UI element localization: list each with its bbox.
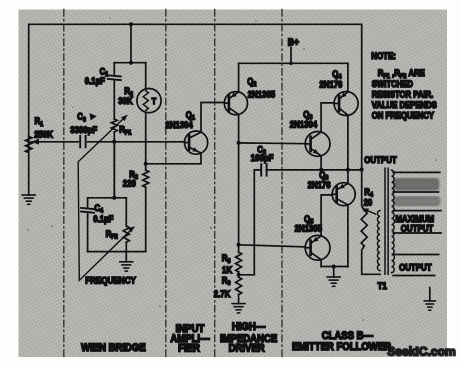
wire box1 right leg bbox=[145, 63, 147, 252]
svg-text:NOTE:: NOTE: bbox=[371, 50, 396, 61]
transformer T1 core bbox=[384, 168, 386, 274]
secondary tap 4 bbox=[393, 232, 441, 234]
wire Q3 collector bbox=[321, 103, 334, 132]
wire Q2 emitter to B+ bbox=[238, 63, 240, 92]
wire emitter bus bbox=[321, 266, 348, 268]
junction Q3 emitter bbox=[319, 168, 323, 172]
svg-text:WIEN BRIDGE: WIEN BRIDGE bbox=[81, 342, 146, 354]
B+ terminal bbox=[290, 48, 292, 64]
wire feedback to R4 bbox=[362, 170, 365, 211]
svg-text:ON FREQUENCY: ON FREQUENCY bbox=[372, 110, 434, 121]
svg-text:SWITCHED: SWITCHED bbox=[372, 78, 413, 89]
wire ground stub box2 bbox=[125, 252, 127, 262]
wire ground stub emitters bbox=[333, 267, 335, 278]
wire feedback top rail bbox=[29, 24, 362, 195]
transistor Q1 2N1304 bbox=[185, 131, 208, 154]
svg-text:2N176: 2N176 bbox=[319, 79, 342, 90]
svg-text:2N1305: 2N1305 bbox=[248, 89, 276, 100]
wire Q6 emitter down bbox=[347, 205, 349, 267]
junction Q5 base node bbox=[237, 243, 241, 247]
svg-text:2N176: 2N176 bbox=[308, 179, 331, 190]
secondary tap 5 bbox=[393, 254, 438, 256]
capacitor C3 3300pF bbox=[79, 136, 81, 148]
junction Q3 base node bbox=[237, 141, 241, 145]
svg-text:2.7K: 2.7K bbox=[214, 288, 231, 299]
wire B+ rail bbox=[239, 62, 348, 64]
svg-text:FIER: FIER bbox=[178, 343, 200, 355]
wire Q1 emitter bbox=[146, 153, 201, 164]
capacitor C1 0.1uF bbox=[108, 75, 121, 76]
wire Q3 emitter bbox=[320, 156, 322, 170]
wire ground stub R6 bbox=[238, 295, 240, 304]
secondary tap 6 bbox=[393, 275, 435, 277]
svg-text:30K: 30K bbox=[118, 95, 133, 106]
svg-text:0.1µF: 0.1µF bbox=[93, 213, 113, 224]
wire R4 bottom to primary bbox=[362, 246, 380, 274]
secondary tap 2 bbox=[393, 191, 438, 193]
wire Q4 emitter down bbox=[347, 115, 349, 169]
svg-text:OUTPUT: OUTPUT bbox=[401, 223, 434, 234]
svg-text:T: T bbox=[152, 97, 157, 107]
resistor R1 250K bbox=[26, 137, 32, 153]
svg-text:250K: 250K bbox=[34, 129, 53, 140]
resistor R4 20 bbox=[361, 210, 367, 246]
transistor Q4 2N176 bbox=[334, 92, 358, 116]
svg-text:OUTPUT: OUTPUT bbox=[399, 262, 432, 273]
transformer T1 secondary bbox=[392, 170, 395, 272]
svg-text:RESISTOR PAIR.: RESISTOR PAIR. bbox=[372, 89, 433, 100]
wire output rail bbox=[267, 169, 362, 171]
wire Q5 emitter down bbox=[320, 260, 322, 267]
wire Q4 collector to B+ bbox=[347, 63, 349, 91]
svg-text:T1: T1 bbox=[378, 280, 387, 291]
junction Q4 emitter bbox=[346, 168, 350, 172]
svg-text:220: 220 bbox=[123, 178, 136, 189]
svg-text:2N1304: 2N1304 bbox=[290, 119, 318, 130]
wire C2 left drop bbox=[239, 170, 262, 275]
svg-text:2N1305: 2N1305 bbox=[295, 223, 323, 234]
wire Q2 collector down bbox=[238, 115, 240, 253]
wire R5-R6 junction bbox=[238, 272, 240, 277]
transistor Q5 2N1305 bbox=[305, 235, 330, 260]
wire Q1 collector bbox=[201, 103, 224, 132]
wire box1 top bbox=[114, 62, 145, 64]
secondary tap 1 bbox=[393, 171, 440, 173]
junction feedback T bbox=[360, 168, 364, 172]
svg-text:VALUE DEPENDS: VALUE DEPENDS bbox=[372, 99, 437, 110]
section divider line 4 bbox=[281, 10, 283, 357]
ground below RF2 bbox=[120, 262, 133, 271]
transistor Q6 2N176 bbox=[332, 183, 355, 206]
transformer T1 primary bbox=[377, 211, 380, 271]
resistor R5 1K bbox=[236, 252, 242, 272]
wire Q6 collector up bbox=[347, 170, 349, 184]
section divider line 3 bbox=[214, 10, 216, 357]
wire box2 top bbox=[88, 197, 127, 199]
section divider line 1 bbox=[63, 10, 65, 357]
svg-text:HIGH—: HIGH— bbox=[232, 322, 266, 334]
svg-text:EMITTER FOLLOWER: EMITTER FOLLOWER bbox=[292, 341, 392, 353]
wire box2 left leg bbox=[87, 198, 89, 252]
wire box2 feed bbox=[113, 142, 115, 198]
svg-text:3300pF: 3300pF bbox=[70, 124, 97, 135]
resistor RF1 bbox=[111, 119, 117, 132]
junction Q1 emitter node bbox=[144, 162, 148, 166]
resistor R3 220 bbox=[143, 170, 149, 187]
wire box1 left leg bbox=[113, 63, 115, 198]
transistor Q3 2N1304 bbox=[305, 132, 330, 157]
svg-text:B+: B+ bbox=[288, 36, 300, 48]
chassis ground right bbox=[429, 288, 431, 301]
junction RF1-main bbox=[112, 140, 116, 144]
transistor Q2 2N1305 bbox=[224, 92, 247, 115]
capacitor C4 0.1uF bbox=[81, 208, 94, 209]
frequency gang link bbox=[78, 116, 134, 281]
wire Q5 base bbox=[239, 245, 306, 247]
svg-text:100pF: 100pF bbox=[251, 153, 274, 164]
resistor RF2 bbox=[123, 226, 129, 242]
svg-text:DRIVER: DRIVER bbox=[229, 343, 266, 355]
svg-text:SeekIC.com: SeekIC.com bbox=[387, 344, 456, 358]
svg-text:2N1304: 2N1304 bbox=[165, 119, 193, 130]
svg-text:0.1µF: 0.1µF bbox=[85, 75, 105, 86]
section divider line 2 bbox=[165, 10, 167, 357]
capacitor C2 100pF bbox=[260, 164, 262, 175]
ground below Q5 Q6 bbox=[327, 277, 340, 286]
R4 wiper arrow bbox=[364, 209, 376, 214]
secondary tap 3 bbox=[393, 210, 441, 212]
thermistor R2 zigzag bbox=[143, 91, 148, 111]
wire box2 right leg bbox=[125, 198, 127, 252]
resistor R6 2.7K bbox=[236, 277, 242, 294]
ground below R6 bbox=[232, 304, 245, 313]
wire bridge feed bbox=[130, 24, 132, 62]
wire main node to Q1 base bbox=[32, 141, 79, 143]
wire Q3 base bbox=[239, 142, 306, 145]
svg-text:20: 20 bbox=[364, 197, 373, 208]
ground below R1 bbox=[22, 195, 35, 204]
wire box2 bottom bbox=[88, 251, 146, 253]
svg-text:FREQUENCY: FREQUENCY bbox=[85, 275, 136, 286]
svg-text:OUTPUT: OUTPUT bbox=[364, 155, 397, 166]
thermistor R2 circle bbox=[137, 89, 161, 113]
wire Q5 collector to Q6 base bbox=[321, 195, 332, 236]
svg-text:1K: 1K bbox=[222, 265, 233, 276]
